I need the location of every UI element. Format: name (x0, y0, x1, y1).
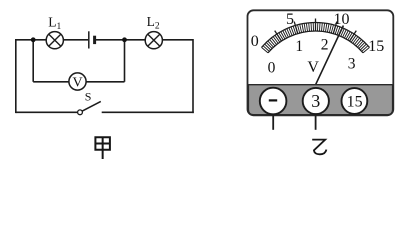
terminal minus (260, 88, 287, 115)
label yi (diagram B) (312, 140, 326, 155)
wire voltmeter branch horizontal (33, 81, 124, 83)
terminal post minus (272, 115, 274, 129)
svg-text:S: S (85, 90, 92, 104)
wire left vertical (15, 39, 17, 113)
meter case (248, 10, 394, 115)
node junction dot left (31, 37, 36, 42)
wire bottom left to switch (16, 111, 78, 113)
wire top from L2 to right corner (162, 39, 193, 41)
svg-text:0: 0 (251, 33, 259, 50)
svg-text:2: 2 (321, 36, 329, 53)
svg-text:5: 5 (286, 11, 294, 28)
battery cell: short thick plate (93, 36, 96, 44)
terminal post 3 (315, 115, 317, 129)
svg-text:V: V (307, 59, 319, 76)
wire bottom switch to right (102, 111, 194, 113)
meter scale arc band with ticks (262, 19, 370, 53)
svg-text:10: 10 (334, 11, 350, 28)
meter case border (248, 10, 394, 115)
svg-text:3: 3 (348, 56, 356, 73)
wire top from battery to L2 (96, 39, 145, 41)
wire voltmeter branch left vertical (32, 40, 34, 82)
node junction dot right (122, 37, 127, 42)
terminal 3 (303, 88, 329, 114)
lamp L1 (46, 32, 63, 49)
terminal 15 (342, 88, 368, 114)
svg-text:V: V (72, 75, 82, 90)
svg-text:0: 0 (268, 59, 276, 76)
svg-text:15: 15 (347, 94, 363, 111)
wire top from L1 to battery (63, 39, 88, 41)
switch S (78, 101, 101, 114)
svg-text:15: 15 (368, 38, 384, 55)
svg-text:3: 3 (311, 91, 320, 111)
wire right vertical (192, 39, 194, 113)
wire top left segment (16, 39, 47, 41)
svg-text:1: 1 (295, 38, 303, 55)
meter needle (314, 26, 344, 89)
label jia (diagram A) (95, 137, 110, 159)
battery cell: long thin plate (88, 31, 90, 48)
lamp L2 (145, 32, 162, 49)
meter terminal strip (gray band) (248, 85, 392, 115)
wire voltmeter branch right vertical (124, 40, 126, 82)
voltmeter V1 (69, 73, 86, 90)
